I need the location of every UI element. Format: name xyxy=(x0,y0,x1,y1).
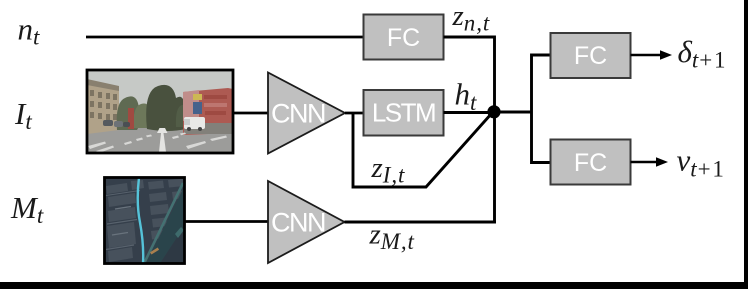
parked cars left xyxy=(103,120,113,126)
red advertising pillar xyxy=(128,108,134,129)
diagonal road band dark teal xyxy=(146,186,185,264)
svg-text:LSTM: LSTM xyxy=(372,98,435,128)
image I_t (street photo) xyxy=(87,70,233,153)
svg-text:CNN: CNN xyxy=(271,208,325,238)
CNN triangle 1 (image encoder) xyxy=(268,73,345,154)
arrow FC3 to v xyxy=(631,157,669,166)
left building xyxy=(87,80,119,134)
LSTM box xyxy=(364,90,444,136)
FC box U3 (bottom right) xyxy=(551,140,631,185)
arrow FC2 to delta xyxy=(631,50,673,59)
wire CNN1 to LSTM xyxy=(345,112,364,115)
wire branch split to FC2 and FC3 xyxy=(532,55,552,163)
white van xyxy=(184,117,205,129)
wire LSTM to node xyxy=(444,111,495,114)
svg-text:FC: FC xyxy=(387,24,420,52)
node (merge dot) xyxy=(487,105,500,118)
FC box U2 (top right) xyxy=(551,33,631,78)
center dark trees xyxy=(146,85,186,131)
trees left of center xyxy=(117,96,140,130)
lane markings xyxy=(159,133,166,152)
right red buildings xyxy=(183,88,233,135)
svg-text:FC: FC xyxy=(574,42,607,70)
FC box U1 (top middle) xyxy=(364,15,444,60)
wire FC1 output to corner and down through node to z_M line xyxy=(444,37,495,222)
city blocks xyxy=(106,179,185,263)
wire map to CNN2 xyxy=(185,220,268,223)
bottom black bar (slide frame) xyxy=(0,282,748,289)
small marker xyxy=(150,248,159,255)
thin street lines xyxy=(106,191,140,196)
wire node to right branch xyxy=(494,111,532,114)
wire z_I branch: down, right, diagonal to node xyxy=(353,113,492,187)
svg-text:FC: FC xyxy=(574,149,607,177)
svg-text:CNN: CNN xyxy=(271,99,325,129)
wire photo to CNN1 xyxy=(233,112,268,115)
wire CNN2 to node vertical xyxy=(345,221,497,224)
left sidewalk xyxy=(87,126,152,133)
CNN triangle 2 (map encoder) xyxy=(268,181,345,263)
route cyan line xyxy=(138,178,143,264)
image M_t (map) xyxy=(105,178,185,264)
right black bar (slide frame) xyxy=(744,0,748,289)
wire n_t to FC1 xyxy=(86,36,364,39)
road xyxy=(87,125,233,153)
